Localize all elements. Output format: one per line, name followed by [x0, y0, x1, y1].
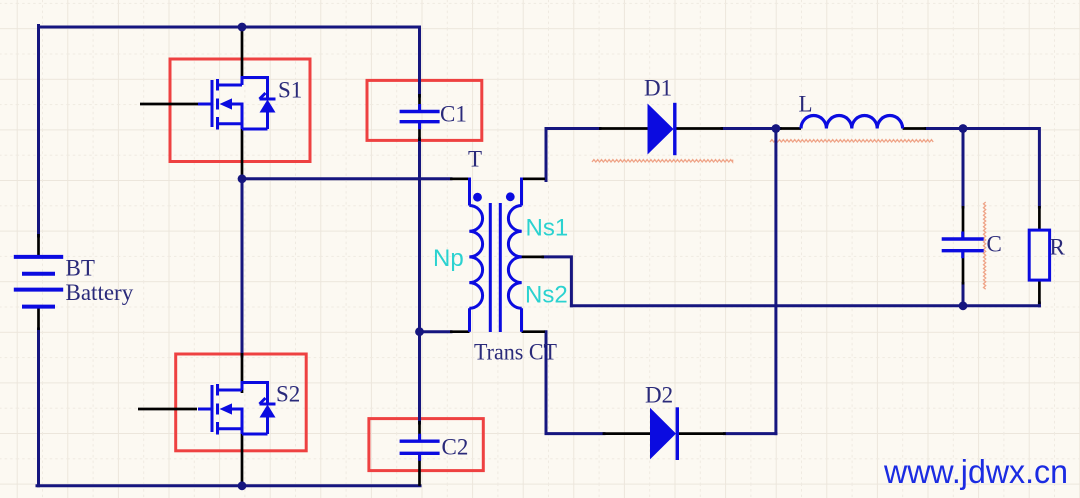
wire top rail — [39, 26, 420, 29]
wire center tap run — [543, 257, 571, 306]
junction top rail / S1 drain — [238, 23, 247, 32]
svg-text:Ns2: Ns2 — [525, 282, 568, 309]
wire secondary top riser — [546, 129, 600, 181]
wire bottom rail — [37, 484, 420, 487]
wire primary bottom to cap midpoint — [420, 330, 452, 333]
wire left column upper — [37, 26, 40, 237]
pin C1 top — [418, 94, 421, 111]
label S1 — [278, 78, 302, 103]
label Battery — [66, 280, 134, 305]
wire C output bottom feed — [962, 284, 965, 306]
label C1 — [440, 102, 467, 127]
pin transformer primary top — [450, 177, 470, 180]
transformer polarity dot secondary — [506, 192, 515, 201]
label S2 — [276, 382, 300, 407]
battery BT plates — [14, 257, 63, 307]
pin S1 gate lead — [140, 103, 199, 106]
pin D1 cathode — [674, 127, 723, 130]
pin S1 drain — [241, 27, 244, 81]
svg-text:www.jdwx.cn: www.jdwx.cn — [883, 453, 1068, 490]
squiggle mark beside C — [984, 202, 986, 289]
pin transformer secondary bottom — [522, 330, 546, 333]
label Trans CT — [474, 340, 557, 365]
pin R bottom — [1038, 279, 1041, 304]
svg-text:L: L — [799, 92, 813, 117]
highlight box around S2 — [176, 354, 307, 451]
pin S2 source — [241, 433, 244, 486]
wire left column lower — [37, 329, 40, 486]
transformer polarity dot primary — [473, 193, 482, 202]
label R — [1050, 235, 1066, 260]
svg-text:S1: S1 — [278, 78, 302, 103]
svg-text:C: C — [987, 232, 1002, 257]
capacitor C (output) — [942, 232, 984, 259]
label T — [468, 147, 482, 172]
svg-text:BT: BT — [66, 256, 95, 281]
squiggle mark under D1 wire — [592, 160, 733, 162]
label D1 — [644, 76, 672, 101]
wire L to output top rail — [926, 129, 1039, 208]
inductor L — [801, 115, 903, 128]
squiggle mark under L wire — [770, 140, 933, 142]
pin R top — [1038, 206, 1041, 231]
pin C bottom — [962, 252, 965, 285]
pin L left — [778, 127, 801, 130]
transistor S1 (MOSFET with body diode) — [198, 78, 276, 130]
capacitor C2 — [400, 434, 440, 461]
svg-text:Battery: Battery — [66, 280, 134, 305]
resistor R (output load) — [1029, 230, 1049, 280]
svg-text:Np: Np — [433, 245, 464, 272]
transformer T core — [490, 203, 500, 332]
transformer T secondary winding Ns1/Ns2 — [508, 178, 521, 332]
svg-text:Trans CT: Trans CT — [474, 340, 557, 365]
label Np — [433, 245, 464, 272]
label Ns2 — [525, 282, 568, 309]
wire midpoint rail S1-S2 to transformer — [242, 177, 451, 180]
pin S2 drain — [241, 353, 244, 393]
junction L output / C top — [959, 124, 968, 133]
svg-text:T: T — [468, 147, 482, 172]
label C2 — [442, 435, 469, 460]
pin S1 source — [241, 128, 244, 179]
pin D2 cathode — [677, 432, 726, 435]
wire C output top feed — [962, 129, 965, 208]
wire C1 to C2 column — [418, 139, 421, 423]
junction output bottom rail / C bottom — [959, 301, 968, 310]
svg-text:D2: D2 — [645, 383, 673, 408]
watermark www.jdwx.cn — [883, 453, 1068, 490]
pin C1 bottom — [418, 123, 421, 142]
pin transformer secondary top — [522, 177, 546, 180]
svg-text:S2: S2 — [276, 382, 300, 407]
diode D2 — [650, 407, 677, 460]
label L — [799, 92, 813, 117]
junction bottom rail / S2 source — [238, 481, 247, 490]
wire C1 top feed — [418, 27, 421, 96]
pin battery top — [37, 234, 40, 256]
label C — [987, 232, 1002, 257]
svg-text:C2: C2 — [442, 435, 469, 460]
capacitor C1 — [400, 104, 440, 129]
transistor S2 (MOSFET with body diode) — [198, 383, 276, 435]
svg-text:R: R — [1050, 235, 1066, 260]
junction S1 source / midpoint rail — [238, 174, 247, 183]
junction cap midpoint / primary bottom — [415, 327, 424, 336]
highlight box around S1 — [170, 59, 310, 162]
wire D2 cathode run — [725, 432, 776, 435]
label D2 — [645, 383, 673, 408]
wire secondary bottom riser — [546, 332, 604, 434]
pin D2 anode — [603, 432, 650, 435]
junction D1 output / L / freewheel riser — [772, 124, 781, 133]
svg-text:Ns1: Ns1 — [526, 215, 569, 242]
pin C2 bottom — [418, 455, 421, 486]
wire freewheel riser D2 to D1-L junction — [774, 129, 777, 434]
pin transformer primary bottom — [450, 330, 470, 333]
label BT — [66, 256, 95, 281]
svg-text:C1: C1 — [440, 102, 467, 127]
pin transformer center tap — [522, 256, 545, 259]
pin C2 top — [418, 421, 421, 440]
pin C top — [962, 206, 965, 238]
highlight box around C2 — [369, 419, 483, 471]
diode D1 — [648, 103, 675, 155]
wire D1 cathode to junction — [722, 127, 780, 130]
svg-text:D1: D1 — [644, 76, 672, 101]
pin S2 gate lead — [138, 408, 197, 411]
pin L right — [903, 127, 926, 130]
wire R bottom joint — [1038, 303, 1041, 306]
wire output bottom rail — [571, 304, 1039, 307]
wire S1 source to S2 drain column — [241, 179, 244, 356]
label Ns1 — [526, 215, 569, 242]
transformer T primary winding Np — [469, 178, 482, 332]
pin D1 anode — [599, 127, 648, 130]
pin battery bottom — [37, 307, 40, 330]
highlight box around C1 — [367, 80, 482, 140]
